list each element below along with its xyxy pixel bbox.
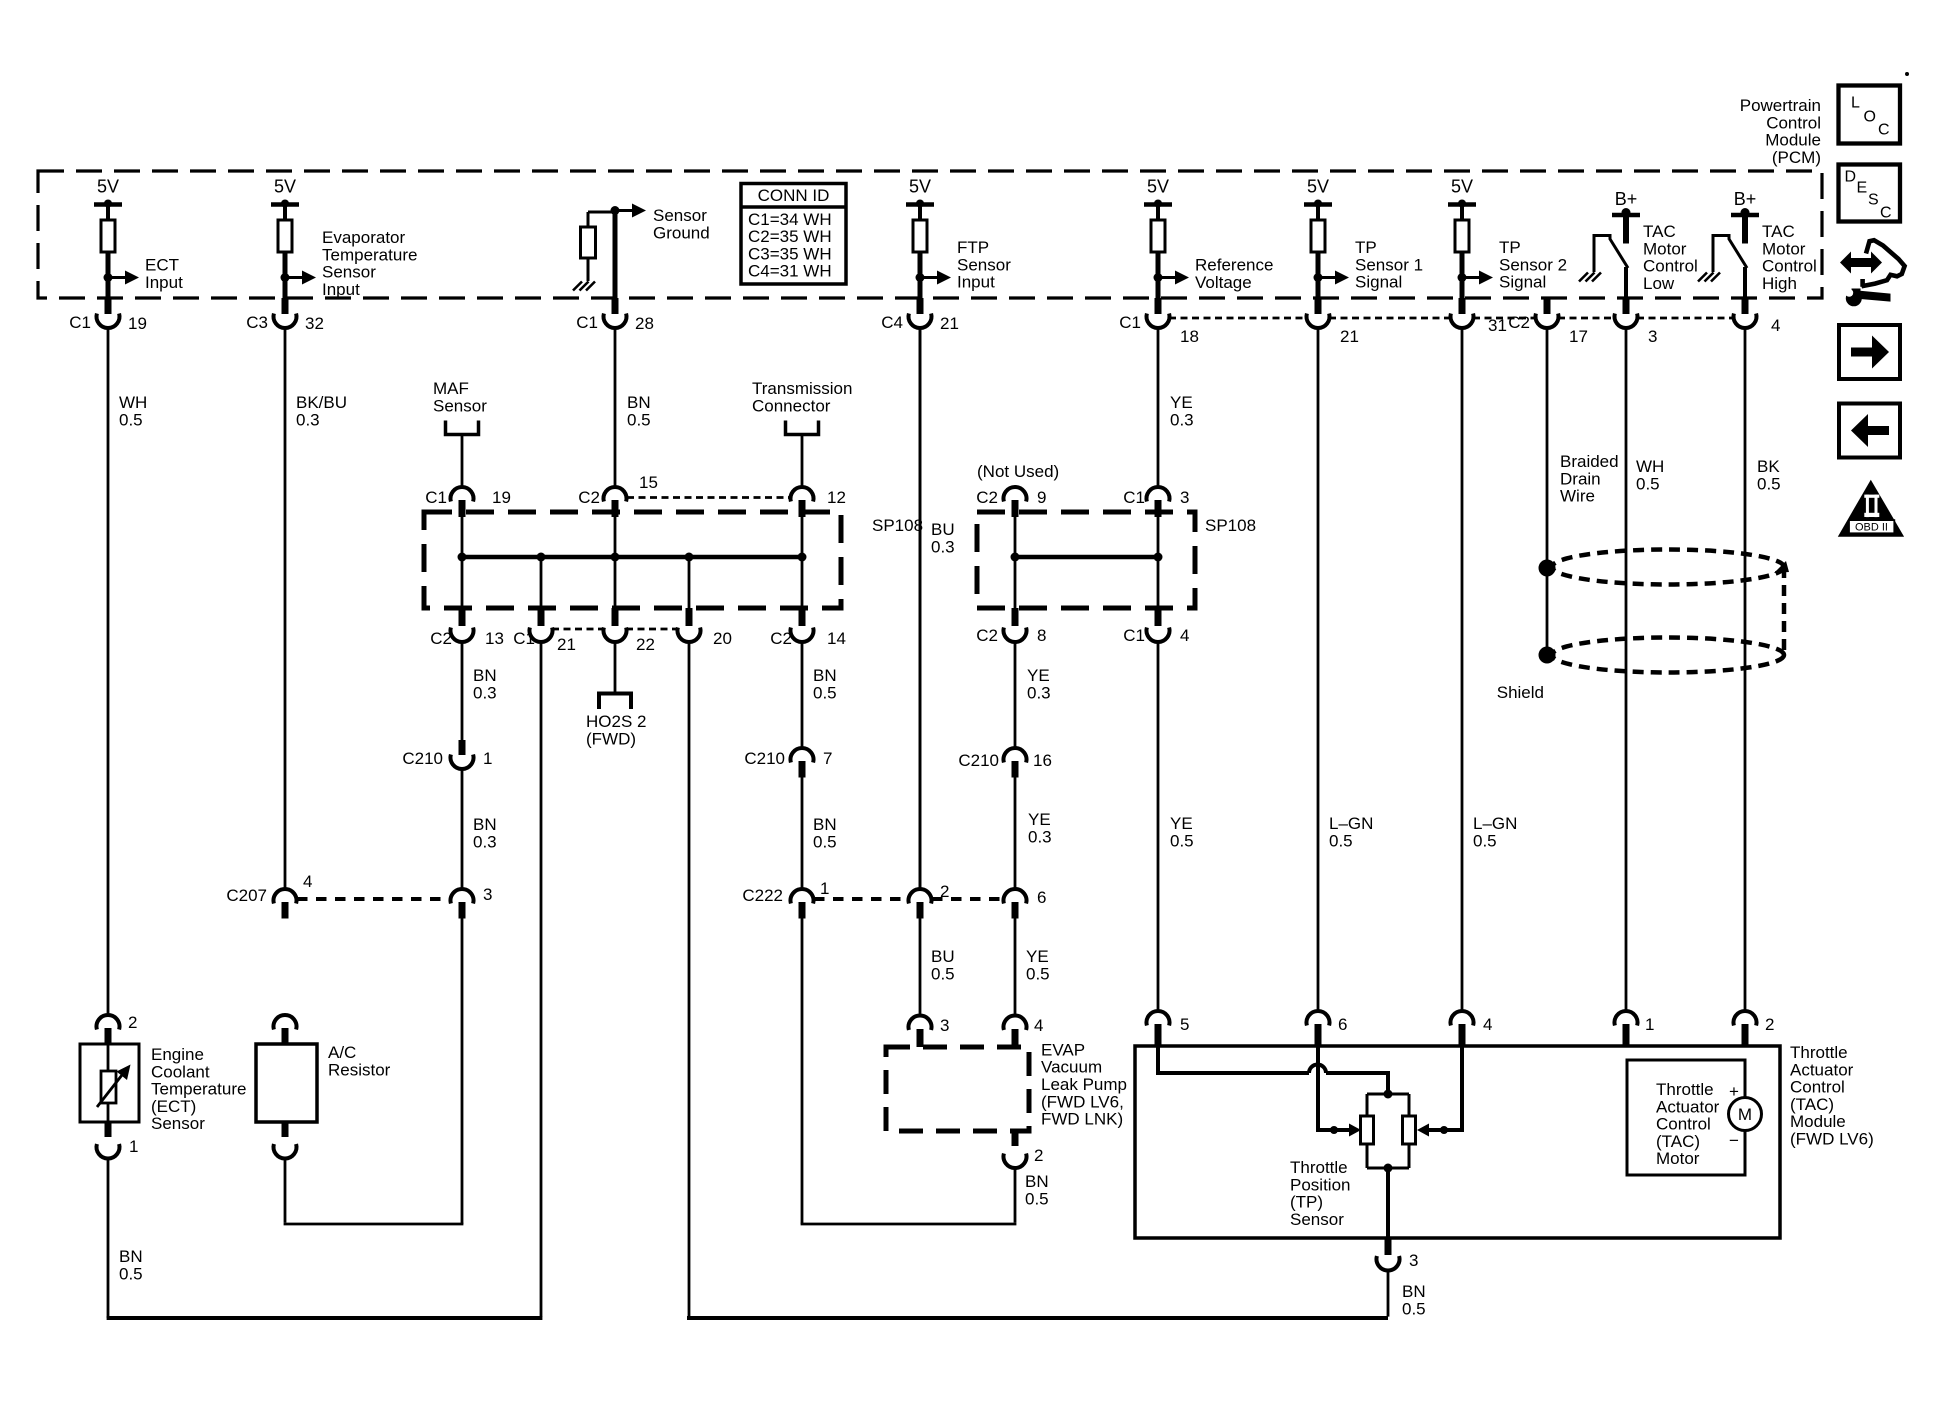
svg-text:Engine: Engine (151, 1045, 204, 1064)
svg-text:TAC: TAC (1762, 222, 1795, 241)
label MAF Sensor (433, 379, 487, 415)
svg-text:0.5: 0.5 (1025, 1189, 1049, 1208)
svg-text:0.3: 0.3 (473, 683, 497, 702)
PCM module dashed box (38, 171, 1822, 298)
svg-text:Braided: Braided (1560, 452, 1619, 471)
svg-text:SP108: SP108 (872, 516, 923, 535)
wire label BN 0.3 (lower) (473, 815, 497, 851)
5V pull-up resistor, TP sensor 1 signal (1304, 177, 1349, 299)
svg-text:15: 15 (639, 473, 658, 492)
wire C222-2 to EVAP pin 3 (919, 919, 922, 1017)
B+ driver switch, TAC motor control high (1698, 189, 1759, 298)
svg-text:3: 3 (483, 885, 492, 904)
svg-text:0.5: 0.5 (1402, 1299, 1426, 1318)
svg-text:(TP): (TP) (1290, 1193, 1323, 1212)
svg-text:BN: BN (1402, 1282, 1426, 1301)
svg-text:1: 1 (1645, 1015, 1654, 1034)
wire label BN 0.3 (upper) (473, 666, 497, 702)
connector C2 pin 13 (out of SP108) (430, 608, 504, 648)
svg-text:Connector: Connector (752, 396, 831, 415)
svg-text:C3: C3 (246, 313, 268, 332)
svg-text:C4: C4 (881, 313, 903, 332)
5V pull-up resistor, FTP sensor input (906, 177, 951, 299)
connector C1 pin 19 (ECT input) (69, 298, 147, 333)
connector pin 31 (TP sensor 2 signal) (1451, 298, 1507, 335)
connector C1 pin 4 (out of SP108) (1123, 608, 1189, 645)
svg-text:FTP: FTP (957, 238, 989, 257)
label Powertrain Control Module (PCM) (1740, 96, 1821, 167)
svg-text:Control: Control (1656, 1115, 1711, 1134)
svg-text:(Not Used): (Not Used) (977, 462, 1059, 481)
wire FTP C4-21 down (919, 328, 922, 889)
wire TP pin3 down to ground run (1387, 1270, 1390, 1317)
svg-text:0.5: 0.5 (119, 1264, 143, 1283)
connector C1 pin 19 (MAF, into SP108) (425, 487, 511, 517)
svg-text:Sensor: Sensor (322, 263, 376, 282)
svg-text:Ground: Ground (653, 223, 710, 242)
connector C210 pin 7 (744, 748, 832, 778)
svg-text:(FWD LV6): (FWD LV6) (1790, 1130, 1874, 1149)
svg-text:B+: B+ (1615, 189, 1638, 209)
svg-text:Signal: Signal (1499, 273, 1546, 292)
svg-text:Reference: Reference (1195, 256, 1273, 275)
svg-text:Throttle: Throttle (1790, 1043, 1848, 1062)
svg-text:Coolant: Coolant (151, 1062, 210, 1081)
svg-text:C: C (1878, 122, 1890, 139)
svg-text:High: High (1762, 274, 1797, 293)
svg-text:Control: Control (1790, 1078, 1845, 1097)
connector C2 pin 9 (not used, into SP108) (976, 487, 1046, 517)
connector pin 22 (out of SP108) (604, 608, 655, 654)
connector pin 3 (TAC low) (1615, 298, 1658, 346)
connector pin 1 (ECT sensor) (97, 1122, 139, 1159)
connector pin 2 (TAC module) (1734, 1011, 1775, 1047)
svg-text:BN: BN (813, 666, 837, 685)
svg-text:C2: C2 (976, 626, 998, 645)
connector pin 3 (TP sensor ground) (1377, 1238, 1419, 1271)
svg-text:Powertrain: Powertrain (1740, 96, 1821, 115)
svg-text:CONN ID: CONN ID (758, 186, 830, 205)
svg-text:ECT: ECT (145, 256, 179, 275)
wire label BN 0.5 (EVAP ground) (1025, 1172, 1049, 1208)
svg-text:Control: Control (1762, 257, 1817, 276)
svg-text:BK/BU: BK/BU (296, 393, 347, 412)
svg-text:19: 19 (128, 314, 147, 333)
wire label BK/BU 0.3 (296, 393, 347, 429)
svg-text:4: 4 (303, 872, 312, 891)
svg-text:C1: C1 (1123, 488, 1145, 507)
connector pin 3 (EVAP pump) (909, 1015, 950, 1047)
wire C210-1 to C207-3 (461, 769, 464, 889)
svg-text:C2: C2 (578, 488, 600, 507)
svg-text:BU: BU (931, 520, 955, 539)
svg-text:5V: 5V (1147, 177, 1169, 197)
svg-text:WH: WH (1636, 457, 1664, 476)
label Evaporator Temperature Sensor Input (322, 228, 417, 299)
svg-text:Evaporator: Evaporator (322, 228, 405, 247)
connector pin 2 (ECT sensor) (97, 1013, 138, 1044)
svg-text:3: 3 (1409, 1251, 1418, 1270)
svg-text:HO2S 2: HO2S 2 (586, 712, 646, 731)
label ECT Input (145, 256, 183, 292)
label TAC Motor Control Low (1643, 222, 1698, 293)
svg-text:0.5: 0.5 (1170, 831, 1194, 850)
svg-text:2: 2 (1765, 1015, 1774, 1034)
svg-text:C210: C210 (958, 751, 999, 770)
svg-text:9: 9 (1037, 488, 1046, 507)
dotted connector link 21-22-20 (552, 628, 678, 631)
wire MAF sensor to C1-19 (461, 435, 464, 488)
svg-text:(ECT): (ECT) (151, 1097, 196, 1116)
svg-text:12: 12 (827, 488, 846, 507)
svg-text:C210: C210 (402, 749, 443, 768)
label TAC Motor Control High (1762, 222, 1817, 293)
svg-text:Sensor: Sensor (1290, 1210, 1344, 1229)
svg-text:4: 4 (1483, 1015, 1492, 1034)
svg-text:Temperature: Temperature (151, 1080, 246, 1099)
svg-text:0.3: 0.3 (1028, 827, 1052, 846)
svg-text:BN: BN (473, 815, 497, 834)
svg-text:Voltage: Voltage (1195, 273, 1252, 292)
label Throttle Actuator Control (TAC) Module (FWD LV6) (1790, 1043, 1874, 1149)
connector C3 pin 32 (evap temp input) (246, 298, 324, 333)
wire label YE 0.5 (reference) (1170, 814, 1194, 850)
svg-text:0.5: 0.5 (627, 410, 651, 429)
svg-text:Control: Control (1766, 113, 1821, 132)
svg-text:Motor: Motor (1762, 239, 1806, 258)
wire label BU 0.3 (FTP) (931, 520, 955, 556)
svg-text:21: 21 (557, 635, 576, 654)
label A/C Resistor (328, 1043, 391, 1079)
wire bus to C2-8 (1014, 557, 1017, 608)
connector C210 pin 1 (402, 740, 492, 769)
svg-text:Input: Input (145, 273, 183, 292)
icon box left arrow (1839, 404, 1900, 458)
5V pull-up resistor, reference voltage (1144, 177, 1189, 299)
wire TP sensor 2 down (1461, 328, 1464, 1011)
splice bus bar SP108 (458, 553, 807, 562)
svg-text:16: 16 (1033, 751, 1052, 770)
svg-text:5V: 5V (1307, 177, 1329, 197)
svg-text:YE: YE (1170, 393, 1193, 412)
svg-text:Motor: Motor (1643, 239, 1687, 258)
svg-text:(PCM): (PCM) (1772, 148, 1821, 167)
svg-text:TAC: TAC (1643, 222, 1676, 241)
wire bus to C2-13 (461, 557, 464, 608)
connector C4 pin 21 (FTP input) (881, 298, 959, 333)
svg-text:5V: 5V (1451, 177, 1473, 197)
svg-text:BN: BN (1025, 1172, 1049, 1191)
svg-text:C1: C1 (1119, 313, 1141, 332)
connector (A/C resistor top) (274, 1015, 297, 1044)
svg-text:C1: C1 (69, 313, 91, 332)
label Sensor Ground (653, 206, 710, 242)
wire label BN 0.5 (sensor ground) (627, 393, 651, 429)
wire A/C resistor to C207-3 loop (284, 919, 464, 1225)
svg-text:0.5: 0.5 (1329, 831, 1353, 850)
svg-text:(FWD): (FWD) (586, 729, 636, 748)
connector C222 pin 1 (742, 879, 829, 919)
wire C210-16 to C222-6 (1014, 778, 1017, 890)
svg-text:Sensor: Sensor (957, 255, 1011, 274)
label TP Sensor 2 Signal (1499, 238, 1567, 292)
icon box LOC (1839, 86, 1901, 144)
svg-text:3: 3 (940, 1016, 949, 1035)
connector C207 pin 4 (226, 872, 312, 919)
svg-text:6: 6 (1338, 1015, 1347, 1034)
connector pin 2 (EVAP pump bottom) (1004, 1131, 1044, 1168)
dashed connector link C222 2-6 (932, 897, 1003, 901)
shield junction dots (1539, 560, 1556, 664)
connector C1 pin 21 (out of SP108) (513, 608, 576, 654)
svg-text:E: E (1857, 180, 1868, 197)
svg-text:Input: Input (322, 280, 360, 299)
svg-text:OBD II: OBD II (1855, 522, 1888, 534)
HO2S 2 connector bracket (599, 694, 631, 710)
wire C2-9 pin to bus (1014, 517, 1017, 557)
wire label WH 0.5 (ECT) (119, 393, 147, 429)
wire bus to C2-14 (801, 557, 804, 608)
dotted connector link C2-15 to 12 (627, 496, 790, 499)
svg-text:14: 14 (827, 629, 846, 648)
wire FTP to C222-2 (919, 328, 922, 889)
svg-text:Drain: Drain (1560, 469, 1601, 488)
wire C1-3 pin to bus (1157, 517, 1160, 557)
svg-text:0.3: 0.3 (296, 410, 320, 429)
connector C2 pin 15 (sensor ground into SP108) (578, 473, 658, 517)
svg-text:C1: C1 (1123, 626, 1145, 645)
connector (A/C resistor bottom) (274, 1122, 297, 1159)
ECT thermistor symbol (97, 1044, 131, 1122)
stray dot (1905, 72, 1909, 76)
dashed connector link C222 1-2 (814, 897, 908, 901)
5V pull-up resistor, TP sensor 2 signal (1448, 177, 1493, 299)
TAC motor circle M (1729, 1082, 1762, 1150)
svg-text:−: − (1729, 1131, 1739, 1150)
wire pin4 to TP wiper right (1417, 1047, 1462, 1137)
shield cylinder right dashed side (1774, 561, 1789, 655)
svg-text:Vacuum: Vacuum (1041, 1058, 1102, 1077)
svg-text:5V: 5V (909, 177, 931, 197)
connector pin 12 (transmission into SP108) (790, 487, 845, 517)
wire bus to 22 (614, 557, 617, 608)
label Engine Coolant Temperature (ECT) Sensor (151, 1045, 246, 1133)
svg-text:TP: TP (1499, 238, 1521, 257)
svg-text:1: 1 (129, 1137, 138, 1156)
svg-text:5: 5 (1180, 1015, 1189, 1034)
wire label L-GN 0.5 (TP2) (1473, 814, 1517, 850)
svg-text:22: 22 (636, 635, 655, 654)
icon OBD II triangle (1838, 480, 1904, 537)
connector C1 pin 3 (reference into SP108) (1123, 487, 1189, 517)
connector C2 pin 8 (out of SP108) (976, 608, 1046, 645)
svg-text:Sensor: Sensor (151, 1114, 205, 1133)
transmission connector housing bracket (786, 421, 819, 435)
svg-text:0.5: 0.5 (1473, 831, 1497, 850)
wire evap temp C3-32 down (284, 328, 287, 889)
svg-text:Wire: Wire (1560, 487, 1595, 506)
svg-text:1: 1 (483, 749, 492, 768)
svg-text:C1: C1 (576, 313, 598, 332)
svg-text:C2: C2 (976, 488, 998, 507)
wire label WH 0.5 (TAC low) (1636, 457, 1664, 493)
svg-text:1: 1 (820, 879, 829, 898)
A/C resistor box (256, 1044, 317, 1122)
SP108 right splice dashed box (977, 512, 1195, 608)
wire label BN 0.5 (transmission lower) (813, 815, 837, 851)
svg-text:21: 21 (940, 314, 959, 333)
svg-text:YE: YE (1028, 810, 1051, 829)
svg-text:FWD LNK): FWD LNK) (1041, 1110, 1123, 1129)
wire C1-19 pin to bus (461, 517, 464, 557)
svg-text:BK: BK (1757, 457, 1780, 476)
connector C1 pin 18 (reference voltage) (1119, 298, 1199, 346)
svg-text:6: 6 (1037, 888, 1046, 907)
svg-text:TP: TP (1355, 238, 1377, 257)
sensor ground circuit with resistor to ground (573, 204, 646, 299)
wire C2-8 to C210-16 (1014, 642, 1017, 748)
svg-text:L–GN: L–GN (1473, 814, 1517, 833)
wire bus to 21 (540, 557, 543, 608)
wire label YE 0.3 (splice to C210-16) (1027, 666, 1051, 702)
svg-text:D: D (1845, 169, 1857, 186)
SP108 left splice dashed box (424, 512, 841, 608)
svg-text:3: 3 (1180, 488, 1189, 507)
svg-text:(TAC): (TAC) (1790, 1095, 1834, 1114)
svg-text:Sensor: Sensor (653, 206, 707, 225)
label FTP Sensor Input (957, 238, 1011, 292)
svg-text:Temperature: Temperature (322, 245, 417, 264)
svg-text:Control: Control (1643, 257, 1698, 276)
svg-text:YE: YE (1027, 666, 1050, 685)
svg-text:C2: C2 (430, 629, 452, 648)
svg-text:C1: C1 (425, 488, 447, 507)
svg-text:0.5: 0.5 (813, 683, 837, 702)
svg-text:Actuator: Actuator (1790, 1060, 1854, 1079)
svg-text:Sensor 2: Sensor 2 (1499, 255, 1567, 274)
dashed connector link C207 4-3 (297, 897, 450, 901)
svg-text:C2: C2 (1508, 313, 1530, 332)
wire label BN 0.5 (TP ground) (1402, 1282, 1426, 1318)
wire TP sensor 1 down (1317, 328, 1320, 1011)
wire pin 12 to bus (801, 517, 804, 557)
label Shield (1497, 683, 1544, 702)
ECT sensor box (80, 1044, 139, 1122)
svg-text:YE: YE (1170, 814, 1193, 833)
label Reference Voltage (1195, 256, 1273, 292)
connector pin 21 (TP sensor 1 signal) (1307, 298, 1359, 346)
svg-text:Shield: Shield (1497, 683, 1544, 702)
connector pin 6 (TAC module) (1307, 1011, 1348, 1047)
svg-text:0.5: 0.5 (1757, 474, 1781, 493)
svg-text:C3=35 WH: C3=35 WH (748, 244, 832, 263)
svg-text:2: 2 (1034, 1146, 1043, 1165)
svg-text:BN: BN (473, 666, 497, 685)
CONN ID table (741, 184, 846, 285)
svg-text:4: 4 (1180, 626, 1189, 645)
icon box DESC (1839, 165, 1901, 222)
svg-text:MAF: MAF (433, 379, 469, 398)
connector pin 20 (out of SP108) (678, 608, 732, 648)
svg-text:Position: Position (1290, 1175, 1350, 1194)
label HO2S 2 (FWD) (586, 712, 646, 748)
connector pin 1 (TAC module) (1615, 1011, 1655, 1047)
label SP108 (right) (1205, 516, 1256, 535)
TAC module box (1135, 1046, 1780, 1238)
MAF sensor housing bracket (446, 421, 479, 435)
svg-text:Signal: Signal (1355, 273, 1402, 292)
wire C2-15 pin to bus (614, 517, 617, 557)
label (Not Used) (977, 462, 1059, 481)
svg-text:C207: C207 (226, 886, 267, 905)
svg-text:A/C: A/C (328, 1043, 356, 1062)
wire C2-13 to C210-1 (461, 642, 464, 740)
svg-text:Leak Pump: Leak Pump (1041, 1075, 1127, 1094)
svg-text:Throttle: Throttle (1656, 1080, 1714, 1099)
connector C222 pin 6 (1004, 888, 1047, 919)
wire pin5 to TP sensor top with hop over pin6 wire (1158, 1047, 1388, 1092)
connector pin 4 (TAC module) (1451, 1011, 1493, 1047)
svg-text:S: S (1868, 192, 1879, 209)
label EVAP Vacuum Leak Pump (FWD LV6, FWD LNK) (1041, 1040, 1127, 1128)
wire label BN 0.5 (ECT low) (119, 1247, 143, 1283)
svg-text:C1: C1 (513, 629, 535, 648)
label Throttle Position (TP) Sensor (1290, 1158, 1350, 1229)
connector pin 5 (TAC module) (1147, 1011, 1190, 1047)
svg-text:C1=34 WH: C1=34 WH (748, 210, 832, 229)
wire label YE 0.3 (reference) (1170, 393, 1194, 429)
shield cylinder dashed bottom ellipse (1552, 638, 1784, 673)
svg-text:0.3: 0.3 (931, 537, 955, 556)
connector pin 4 (TAC high) (1734, 298, 1781, 335)
svg-text:0.5: 0.5 (813, 832, 837, 851)
svg-text:0.3: 0.3 (1027, 683, 1051, 702)
svg-text:Input: Input (957, 273, 995, 292)
svg-text:C2: C2 (770, 629, 792, 648)
wire 20 splice ground run (687, 642, 1388, 1318)
label TP Sensor 1 Signal (1355, 238, 1423, 292)
svg-text:Motor: Motor (1656, 1149, 1700, 1168)
wire transmission connector to pin 12 (801, 435, 804, 488)
dotted connector link line C1-18 to pin 4 (1169, 317, 1734, 320)
TP sensor potentiometer (1361, 1090, 1416, 1173)
wire C210-7 to C222-1 (801, 778, 804, 890)
connector C210 pin 16 (958, 748, 1052, 778)
svg-text:SP108: SP108 (1205, 516, 1256, 535)
svg-text:YE: YE (1026, 947, 1049, 966)
EVAP vacuum leak pump dashed box (886, 1047, 1029, 1131)
label Transmission Connector (752, 379, 852, 415)
svg-text:19: 19 (492, 488, 511, 507)
svg-text:4: 4 (1771, 316, 1780, 335)
svg-text:0.5: 0.5 (1026, 964, 1050, 983)
wire C222-6 to EVAP pin 4 (1014, 919, 1017, 1017)
wire reference voltage to TAC pin5 (1157, 642, 1160, 1011)
wire C2-14 to C210-7 (801, 642, 804, 748)
wire ECT pin1 down and right to 21 (107, 1158, 110, 1318)
wire sensor ground C1-28 down (614, 328, 617, 488)
wire TAC low down (1625, 328, 1628, 1011)
svg-text:20: 20 (713, 629, 732, 648)
wire label BK 0.5 (TAC high) (1757, 457, 1781, 493)
connector C2 pin 14 (out of SP108) (770, 608, 846, 648)
wire label YE 0.5 (1026, 947, 1050, 983)
wire label BU 0.5 (931, 947, 955, 983)
svg-text:Low: Low (1643, 274, 1675, 293)
svg-text:Module: Module (1765, 131, 1821, 150)
wire 22 to HO2S 2 (614, 642, 617, 692)
svg-text:C4=31 WH: C4=31 WH (748, 262, 832, 281)
